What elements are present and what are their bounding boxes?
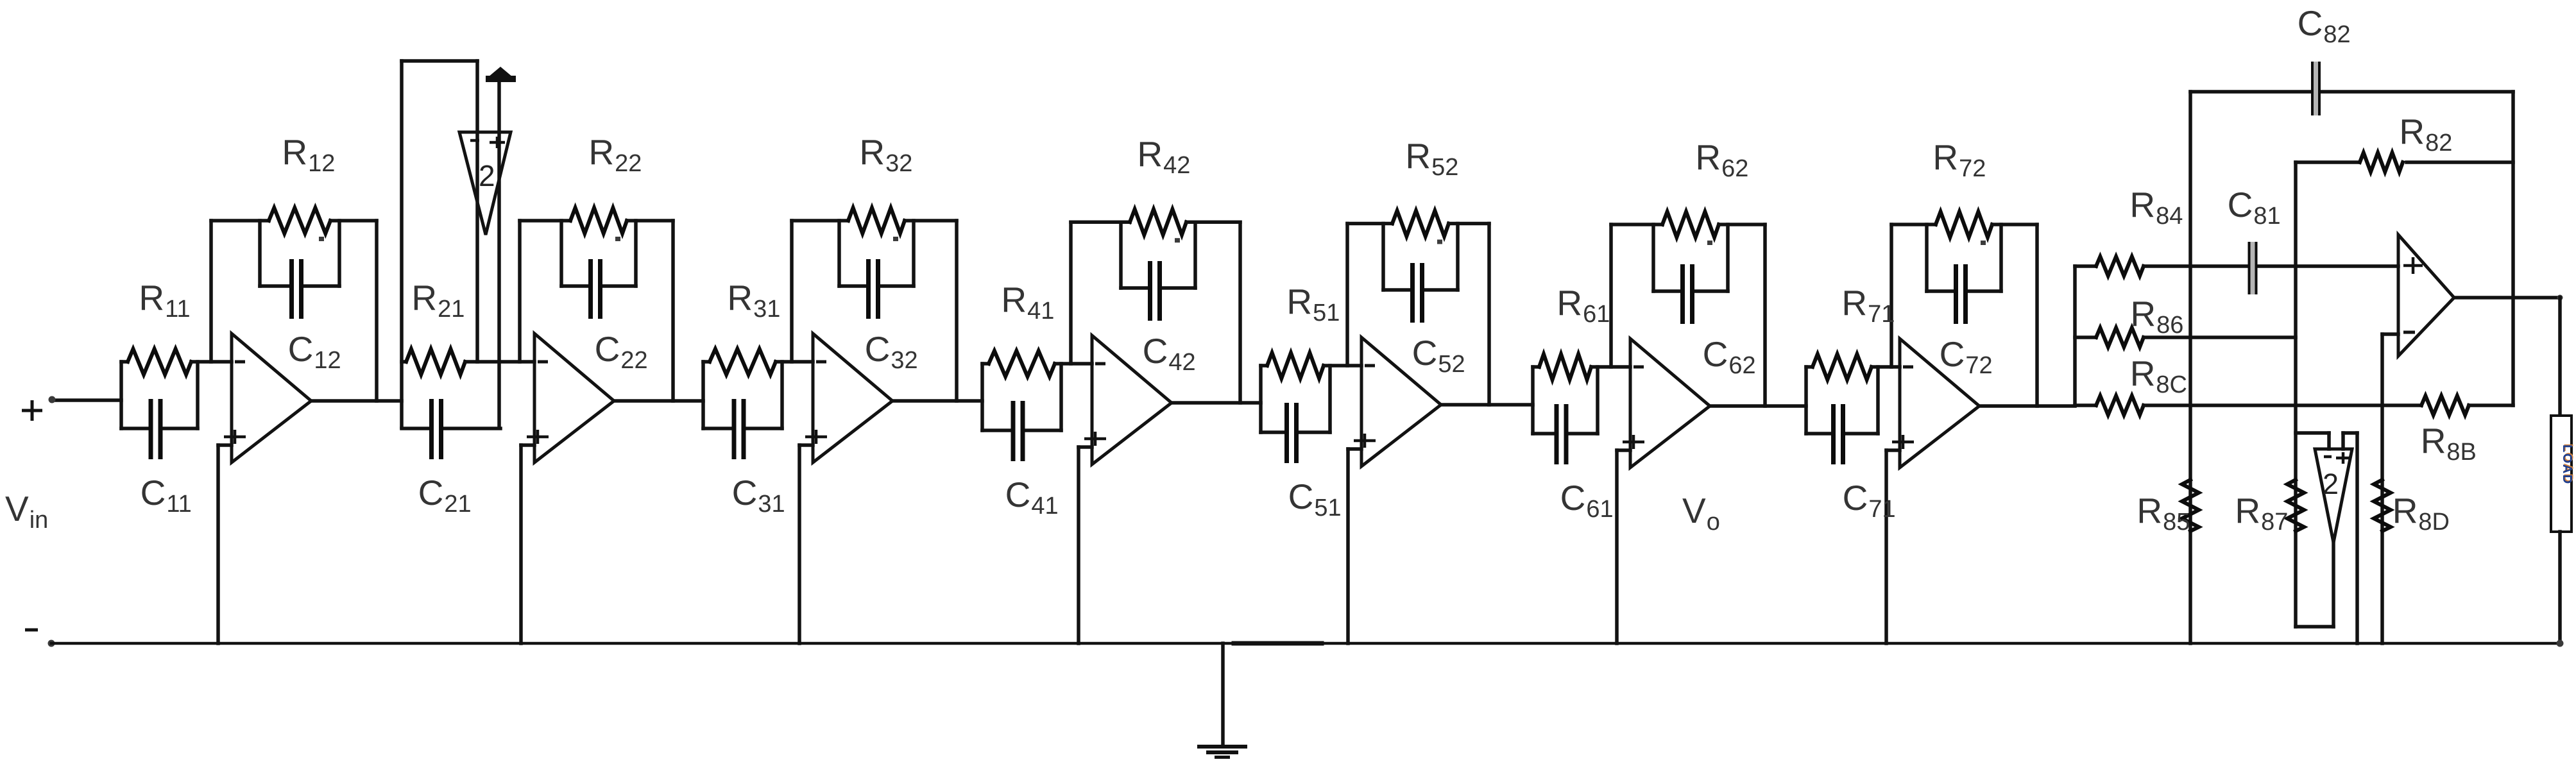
svg-text:LOAD: LOAD <box>2560 444 2574 485</box>
svg-text:2: 2 <box>2323 468 2339 500</box>
svg-text:2: 2 <box>479 159 495 192</box>
